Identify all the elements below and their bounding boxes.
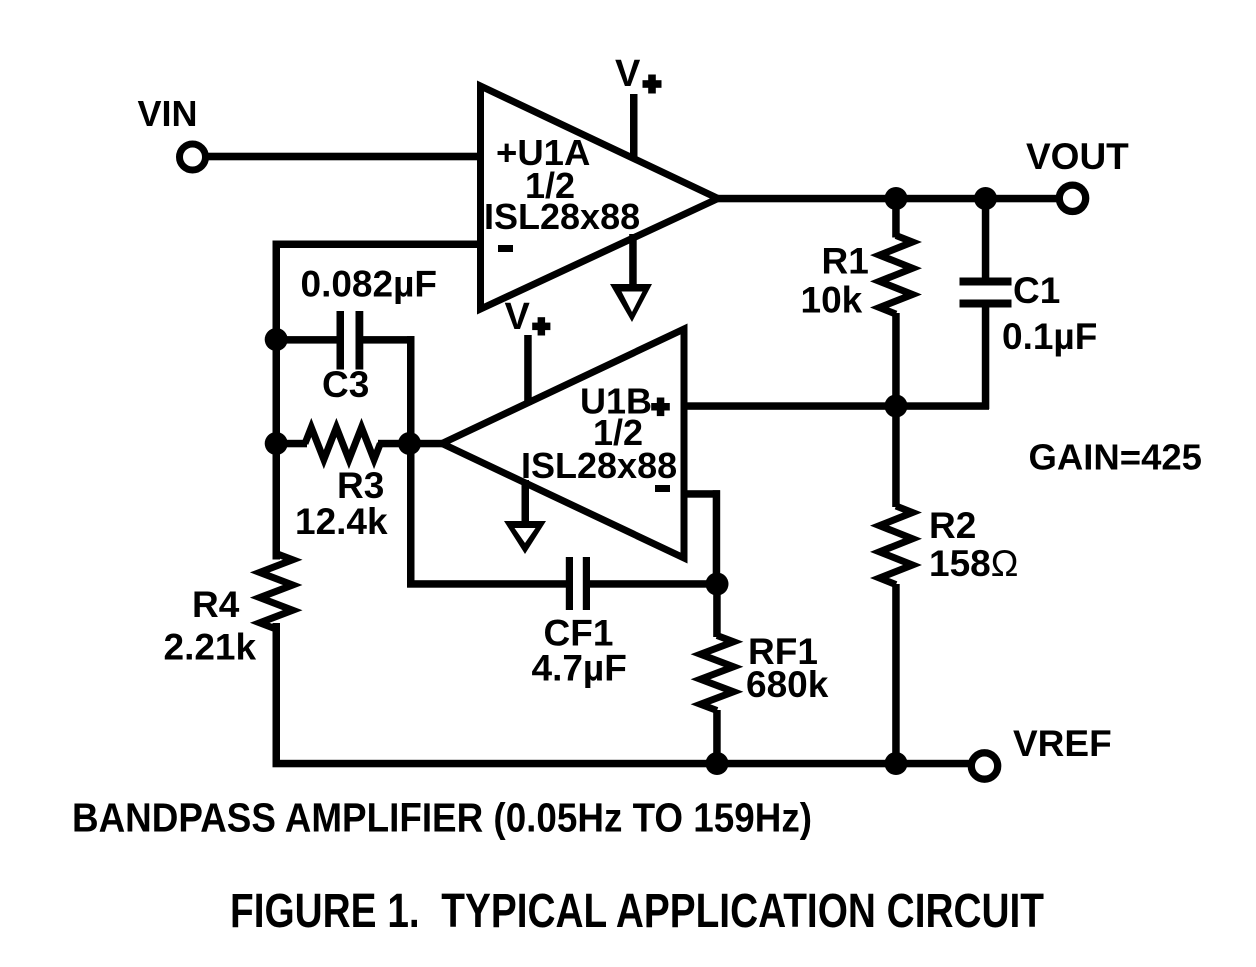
wire R3 right stub to U1B output <box>378 440 446 448</box>
capacitor C1 plate 1 <box>960 278 1012 286</box>
svg-text:ISL28x88: ISL28x88 <box>484 196 640 237</box>
terminal VIN <box>180 144 206 170</box>
node dot output-C1 <box>974 187 997 210</box>
wire C3 left <box>276 336 338 344</box>
capacitor C3 plate 2 <box>356 311 364 370</box>
pin - marker U1B <box>655 485 670 492</box>
capacitor C3 plate 1 <box>337 311 345 370</box>
capacitor CF1 plate 1 <box>566 557 573 610</box>
wire U1B - input horizontal <box>684 490 720 498</box>
svg-text:GAIN=425: GAIN=425 <box>1029 437 1202 478</box>
terminal VOUT <box>1059 185 1085 211</box>
svg-text:VIN: VIN <box>138 93 198 134</box>
svg-text:VREF: VREF <box>1013 723 1112 764</box>
wire R2 top <box>892 406 900 507</box>
pin + marker U1B <box>651 403 670 411</box>
svg-text:680k: 680k <box>746 664 829 705</box>
ground symbol U1A <box>610 284 652 322</box>
wire RF1 bottom <box>713 710 721 767</box>
V+ stem U1A <box>630 94 638 160</box>
wire CF1 left horizontal <box>407 580 566 588</box>
wire R1 bottom <box>892 313 900 408</box>
svg-text:12.4k: 12.4k <box>295 501 388 542</box>
node dot R2 bottom <box>885 752 908 775</box>
wire C3 right vertical down to R3 node <box>407 336 415 447</box>
capacitor C1 plate 2 <box>960 300 1012 308</box>
op-amp U1A <box>481 86 719 309</box>
node dot CF1-RF1 <box>706 573 729 596</box>
wire C1 top <box>982 199 990 278</box>
node dot R1-R2-U1B+ <box>885 395 908 418</box>
wire U1B - input vertical <box>713 490 721 587</box>
node dot R3 right <box>398 432 421 455</box>
bottom rail wire <box>273 760 972 768</box>
svg-text:ISL28x88: ISL28x88 <box>521 445 677 486</box>
svg-text:R3: R3 <box>337 465 384 506</box>
svg-text:BANDPASS AMPLIFIER (0.05Hz TO: BANDPASS AMPLIFIER (0.05Hz TO 159Hz) <box>72 795 812 841</box>
wire left rail vertical (U1A- down to bottom rail) <box>273 241 281 560</box>
svg-text:2.21k: 2.21k <box>164 627 257 668</box>
V+ stem U1B <box>524 335 532 405</box>
wire C1 bottom <box>982 307 990 409</box>
svg-text:R2: R2 <box>929 505 976 546</box>
resistor R4 <box>260 554 293 630</box>
wire R1 top <box>892 199 900 238</box>
node dot C3 left <box>265 328 288 351</box>
svg-text:R4: R4 <box>192 584 240 625</box>
capacitor CF1 plate 2 <box>583 557 590 610</box>
wire R3 left stub <box>276 440 307 448</box>
svg-text:V: V <box>505 296 531 338</box>
resistor RF1 <box>701 636 734 711</box>
ground stem U1A <box>629 234 637 284</box>
svg-text:158Ω: 158Ω <box>929 543 1018 584</box>
svg-text:0.082µF: 0.082µF <box>301 264 438 305</box>
svg-text:VOUT: VOUT <box>1026 136 1129 177</box>
wire U1A inverting feedback horizontal <box>273 241 481 249</box>
wire U1A output to VOUT <box>716 195 1057 203</box>
wire CF1 right horizontal <box>590 580 717 588</box>
svg-text:10k: 10k <box>801 280 863 321</box>
op-amp U1B (mirrored) <box>442 329 684 558</box>
wire VIN to U1A + input <box>207 153 481 161</box>
svg-text:C1: C1 <box>1013 270 1060 311</box>
svg-text:V: V <box>615 53 641 95</box>
wire RF1 top <box>713 584 721 637</box>
node dot output-R1 <box>885 187 908 210</box>
node dot RF1 bottom <box>706 752 729 775</box>
svg-text:4.7µF: 4.7µF <box>532 648 627 689</box>
wire U1B + input row <box>684 402 989 410</box>
wire C3 right <box>363 336 415 344</box>
svg-text:C3: C3 <box>322 364 369 405</box>
terminal VREF <box>971 753 997 779</box>
resistor R1 <box>880 236 913 315</box>
svg-text:FIGURE 1. TYPICAL APPLICATION: FIGURE 1. TYPICAL APPLICATION CIRCUIT <box>230 885 1044 938</box>
svg-text:0.1µF: 0.1µF <box>1002 316 1097 357</box>
node dot R3 left <box>265 432 288 455</box>
resistor R2 <box>880 506 913 585</box>
ground symbol U1B <box>504 521 546 554</box>
pin - marker U1A <box>498 245 513 252</box>
svg-text:R1: R1 <box>822 241 869 282</box>
ground stem U1B <box>522 480 530 523</box>
wire CF1 left vertical from R3 node <box>407 444 415 588</box>
resistor R3 <box>305 428 380 460</box>
wire R2 bottom <box>892 584 900 767</box>
